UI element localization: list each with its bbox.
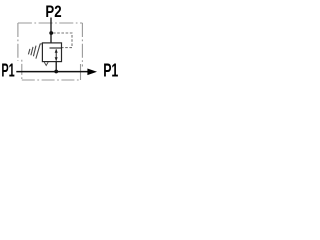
main line P1-P1 wire xyxy=(16,71,87,73)
boundary left lower edge xyxy=(21,60,23,80)
svg-text:P1: P1 xyxy=(1,61,14,82)
pilot line (dashed) from node A to valve right port xyxy=(53,33,72,48)
svg-text:P2: P2 xyxy=(45,2,61,21)
node A junction dot xyxy=(49,31,53,35)
seat bar inside valve xyxy=(50,47,62,49)
drain V notch below valve xyxy=(44,62,48,66)
flow arrow to P1 xyxy=(87,69,97,76)
boundary bottom edge xyxy=(22,79,81,81)
cartridge boundary (dash-dot, upper rectangle) xyxy=(18,23,83,67)
boundary right lower edge xyxy=(80,64,82,80)
svg-text:P1: P1 xyxy=(103,61,118,81)
spring (diagonal zigzag at upper-left corner of valve) xyxy=(28,44,41,59)
boundary right upper edge xyxy=(81,23,83,67)
valve outlet drop wire xyxy=(55,62,57,72)
poppet double arrow inside valve xyxy=(55,50,57,61)
node B junction dot xyxy=(54,70,58,74)
housing boundary (dash-dot, lower rectangle) xyxy=(22,60,81,80)
port P2 line xyxy=(50,18,52,43)
boundary top edge xyxy=(18,22,83,24)
valve envelope U1 xyxy=(42,43,61,62)
boundary left upper edge xyxy=(17,23,19,61)
